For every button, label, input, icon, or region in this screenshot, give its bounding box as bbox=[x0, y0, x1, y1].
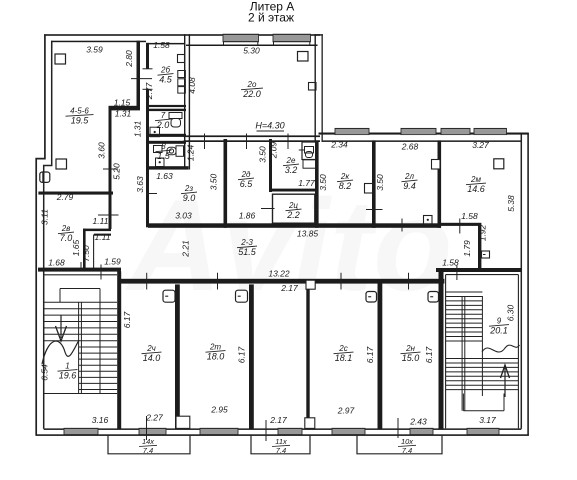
svg-text:18.0: 18.0 bbox=[207, 352, 225, 362]
svg-text:2-3: 2-3 bbox=[240, 238, 253, 247]
svg-text:4.08: 4.08 bbox=[187, 77, 197, 94]
svg-text:5.20: 5.20 bbox=[112, 163, 122, 180]
svg-text:1.11: 1.11 bbox=[93, 216, 109, 226]
svg-text:2.95: 2.95 bbox=[210, 405, 228, 415]
svg-text:2m: 2m bbox=[209, 343, 221, 352]
svg-text:19.6: 19.6 bbox=[59, 371, 77, 381]
svg-text:3.2: 3.2 bbox=[285, 165, 298, 175]
svg-text:2л: 2л bbox=[404, 172, 414, 181]
svg-text:6.17: 6.17 bbox=[365, 346, 375, 363]
svg-text:2ч: 2ч bbox=[146, 344, 156, 353]
svg-text:1.58: 1.58 bbox=[153, 40, 170, 50]
svg-text:4.5: 4.5 bbox=[159, 75, 173, 85]
svg-text:14х: 14х bbox=[142, 437, 154, 446]
svg-text:8.2: 8.2 bbox=[339, 181, 352, 191]
svg-text:1.11: 1.11 bbox=[95, 232, 111, 242]
svg-text:2.97: 2.97 bbox=[337, 406, 355, 416]
svg-text:9: 9 bbox=[497, 317, 502, 326]
svg-text:9.4: 9.4 bbox=[403, 181, 416, 191]
svg-text:3.50: 3.50 bbox=[209, 173, 219, 190]
svg-text:2.17: 2.17 bbox=[269, 415, 287, 425]
svg-text:1.63: 1.63 bbox=[156, 171, 173, 181]
svg-text:1.24: 1.24 bbox=[186, 144, 196, 161]
svg-text:1.58: 1.58 bbox=[461, 211, 478, 221]
svg-text:6.17: 6.17 bbox=[424, 346, 434, 363]
svg-text:8: 8 bbox=[161, 142, 166, 151]
svg-text:2е: 2е bbox=[286, 156, 296, 165]
svg-text:2.21: 2.21 bbox=[181, 240, 191, 258]
svg-text:3.03: 3.03 bbox=[175, 211, 192, 221]
svg-text:2о: 2о bbox=[247, 80, 257, 89]
svg-text:7.4: 7.4 bbox=[143, 446, 153, 455]
svg-text:6.54: 6.54 bbox=[40, 364, 50, 381]
svg-text:3.50: 3.50 bbox=[258, 146, 268, 163]
svg-text:7.4: 7.4 bbox=[402, 446, 412, 455]
svg-text:Н=4.30: Н=4.30 bbox=[255, 121, 284, 131]
svg-text:2.80: 2.80 bbox=[124, 50, 134, 68]
svg-text:6.17: 6.17 bbox=[122, 311, 132, 328]
svg-text:2к: 2к bbox=[340, 172, 350, 181]
svg-text:3.50: 3.50 bbox=[318, 174, 328, 191]
svg-text:3.17: 3.17 bbox=[479, 415, 496, 425]
svg-text:2.77: 2.77 bbox=[144, 82, 154, 100]
svg-text:2.79: 2.79 bbox=[56, 192, 74, 202]
svg-text:1.15: 1.15 bbox=[114, 98, 131, 108]
svg-text:1.68: 1.68 bbox=[48, 258, 65, 268]
svg-text:7: 7 bbox=[161, 111, 166, 120]
svg-text:1.79: 1.79 bbox=[462, 240, 472, 257]
svg-text:2н: 2н bbox=[405, 344, 415, 353]
svg-text:2.34: 2.34 bbox=[330, 140, 348, 150]
svg-text:2.43: 2.43 bbox=[409, 417, 427, 427]
svg-text:2.27: 2.27 bbox=[145, 413, 163, 423]
svg-text:2 й этаж: 2 й этаж bbox=[248, 11, 294, 25]
svg-text:3.27: 3.27 bbox=[472, 140, 489, 150]
svg-text:2в: 2в bbox=[61, 224, 71, 233]
svg-text:5.38: 5.38 bbox=[506, 195, 516, 212]
svg-text:2з: 2з bbox=[184, 184, 193, 193]
svg-text:1: 1 bbox=[65, 362, 69, 371]
svg-text:7.4: 7.4 bbox=[276, 446, 286, 455]
svg-text:2с: 2с bbox=[338, 344, 347, 353]
svg-text:1.77: 1.77 bbox=[298, 178, 315, 188]
svg-text:2.68: 2.68 bbox=[401, 142, 419, 152]
svg-text:2.09: 2.09 bbox=[269, 141, 279, 159]
svg-text:1.92: 1.92 bbox=[478, 224, 488, 241]
svg-text:7.0: 7.0 bbox=[60, 233, 73, 243]
svg-text:5.30: 5.30 bbox=[243, 46, 260, 56]
svg-text:3.63: 3.63 bbox=[135, 176, 145, 193]
svg-text:11х: 11х bbox=[275, 437, 287, 446]
svg-text:2.17: 2.17 bbox=[280, 283, 298, 293]
svg-text:1.65: 1.65 bbox=[71, 239, 81, 256]
svg-text:2.2: 2.2 bbox=[286, 210, 300, 220]
svg-text:10х: 10х bbox=[401, 437, 413, 446]
svg-text:14.0: 14.0 bbox=[143, 353, 161, 363]
svg-text:6.5: 6.5 bbox=[240, 179, 254, 189]
svg-text:1.59: 1.59 bbox=[104, 257, 121, 267]
svg-text:7.50: 7.50 bbox=[81, 245, 91, 262]
svg-text:1.31: 1.31 bbox=[133, 120, 143, 137]
svg-text:22.0: 22.0 bbox=[242, 89, 261, 99]
svg-text:1.86: 1.86 bbox=[239, 211, 256, 221]
svg-text:2б: 2б bbox=[160, 66, 170, 75]
svg-text:9.0: 9.0 bbox=[183, 193, 196, 203]
svg-text:3.16: 3.16 bbox=[92, 415, 109, 425]
svg-text:4-5-6: 4-5-6 bbox=[70, 107, 89, 116]
svg-text:3.59: 3.59 bbox=[86, 45, 103, 55]
svg-text:1.31: 1.31 bbox=[115, 109, 132, 119]
svg-text:19.5: 19.5 bbox=[71, 116, 90, 126]
svg-text:51.5: 51.5 bbox=[238, 247, 257, 257]
svg-text:3.60: 3.60 bbox=[97, 142, 107, 159]
svg-text:1.5: 1.5 bbox=[157, 151, 171, 161]
svg-text:3.11: 3.11 bbox=[40, 209, 50, 225]
svg-text:2м: 2м bbox=[470, 175, 481, 184]
svg-text:6.30: 6.30 bbox=[506, 304, 516, 321]
svg-text:15.0: 15.0 bbox=[402, 353, 420, 363]
svg-text:14.6: 14.6 bbox=[467, 184, 485, 194]
svg-text:2.0: 2.0 bbox=[156, 120, 170, 130]
svg-text:2ц: 2ц bbox=[288, 201, 298, 210]
svg-text:18.1: 18.1 bbox=[335, 353, 353, 363]
svg-text:1.58: 1.58 bbox=[442, 258, 459, 268]
svg-text:20.1: 20.1 bbox=[489, 326, 508, 336]
svg-text:3.50: 3.50 bbox=[375, 174, 385, 191]
svg-text:2д: 2д bbox=[241, 170, 251, 179]
svg-text:13.85: 13.85 bbox=[297, 229, 319, 239]
svg-text:6.17: 6.17 bbox=[237, 346, 247, 363]
svg-text:13.22: 13.22 bbox=[268, 269, 290, 279]
